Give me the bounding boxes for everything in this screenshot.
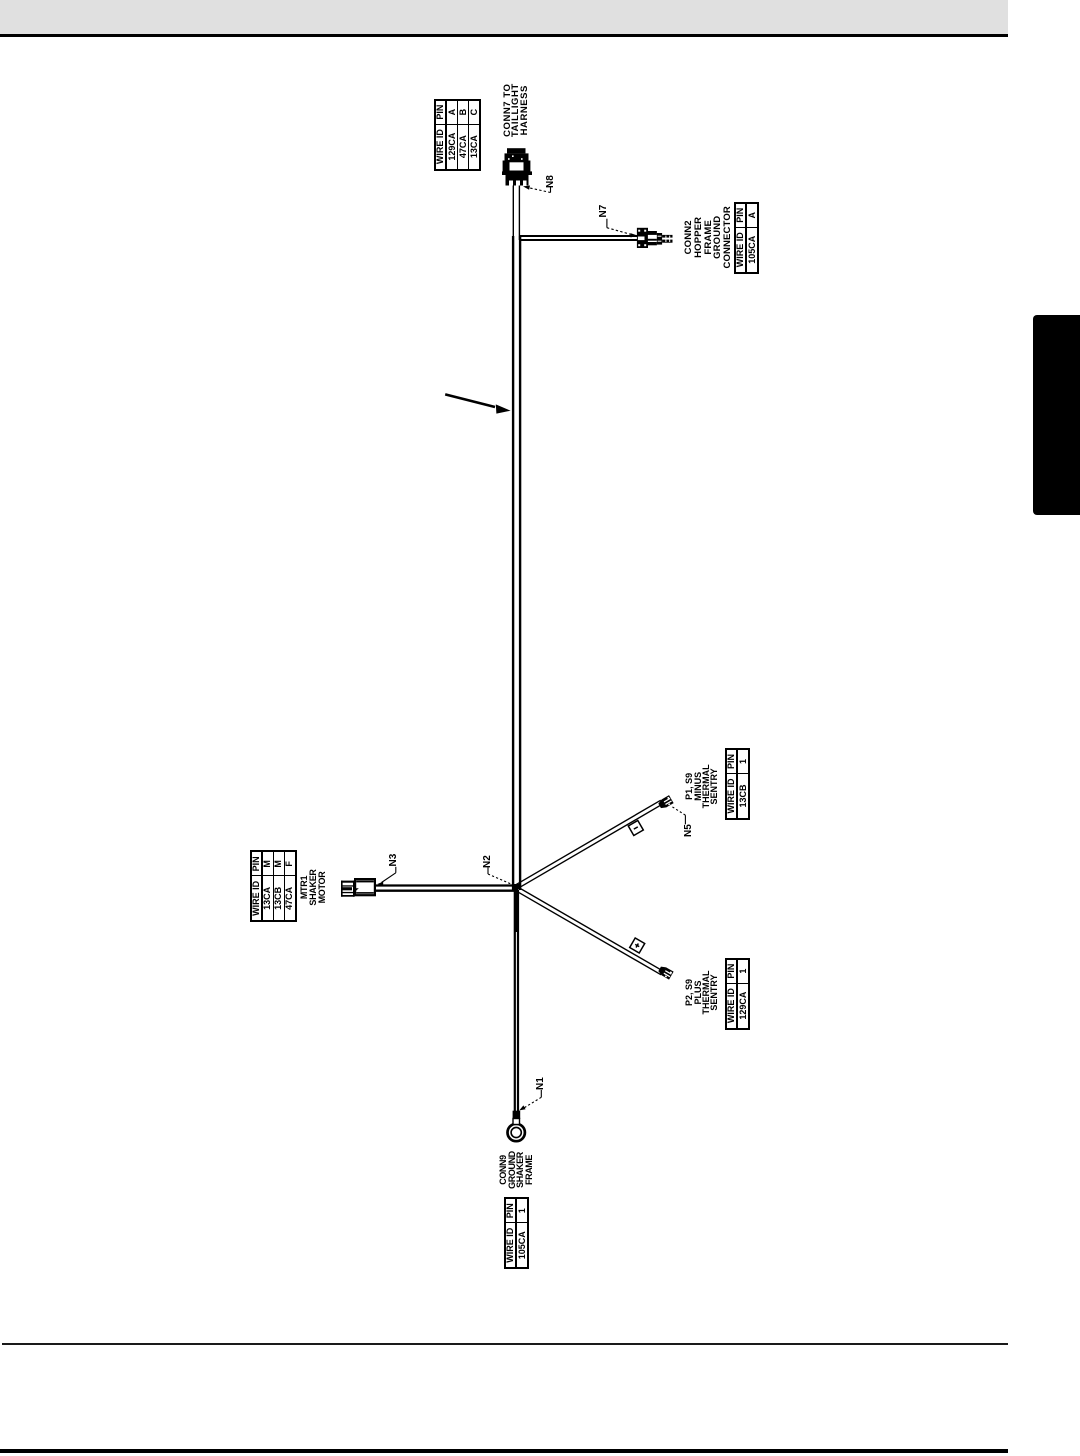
text CONN7 TO TAILLIGHT HARNESS <box>504 64 529 156</box>
wire: thermal sentry minus diagonal <box>516 800 663 888</box>
bottom thick rule <box>0 1449 1008 1453</box>
text CONN2 HOPPER FRAME GROUND CONNECTOR <box>684 203 733 271</box>
text MTR1 SHAKER MOTOR <box>300 858 326 918</box>
label N7 <box>598 205 609 218</box>
label N1 <box>535 1077 546 1090</box>
connector P2 (thermal sentry plus) <box>657 965 673 980</box>
tag plus on sentry wire <box>630 938 645 953</box>
leader N8 (dashed) <box>526 187 551 193</box>
connector N3 (shaker motor) <box>341 879 375 897</box>
leader N1 <box>523 1090 541 1109</box>
leader N7 <box>607 219 632 235</box>
tag minus on sentry wire <box>628 820 643 835</box>
node N2 junction blob <box>513 884 522 890</box>
label N3 <box>388 854 399 867</box>
table wire id N8 <box>434 99 481 171</box>
wire: branch to hopper ground connector N7 (vertical) <box>519 236 638 240</box>
text P1 S9 MINUS THERMAL SENTRY <box>685 756 718 816</box>
wire: thermal sentry plus diagonal <box>516 887 663 975</box>
table wire id ground <box>504 1197 529 1269</box>
connector N7 (hopper frame ground) <box>637 228 673 248</box>
ring terminal N1 (CONN9 ground) <box>508 1111 525 1142</box>
connector N5 (thermal sentry minus) <box>657 795 673 810</box>
top gray header band <box>0 0 1008 34</box>
leader N3 <box>382 867 396 883</box>
label N8 <box>545 175 556 188</box>
text P2 S9 PLUS THERMAL SENTRY <box>685 963 718 1023</box>
wire: taped section near node N2 <box>514 888 518 932</box>
leader N2 (dashed) <box>488 867 516 886</box>
wire: trunk upper segment (N7 junction to connector N8) <box>513 185 519 241</box>
connector N8 (CONN7 taillight) <box>502 148 532 185</box>
wire: shaker motor branch double line (vertical) <box>376 886 517 891</box>
table wire id plus sentry <box>725 958 750 1030</box>
wire: main trunk double line (node N2 to N7 junction) <box>513 236 520 890</box>
label N5 <box>683 824 694 837</box>
wire: ground branch double line (ring N1 to node N2) <box>515 890 518 1112</box>
bottom thin rule <box>2 1343 1008 1345</box>
top rule <box>0 34 1008 37</box>
table wire id minus sentry <box>725 748 750 820</box>
label N2 <box>482 855 493 868</box>
section tab <box>1033 315 1080 515</box>
leader N5 <box>671 806 685 824</box>
table wire id N7 <box>734 202 759 274</box>
pointer arrow at trunk <box>445 394 510 413</box>
text CONN9 GROUND SHAKER FRAME <box>499 1140 533 1200</box>
table wire id shaker motor <box>250 850 297 922</box>
